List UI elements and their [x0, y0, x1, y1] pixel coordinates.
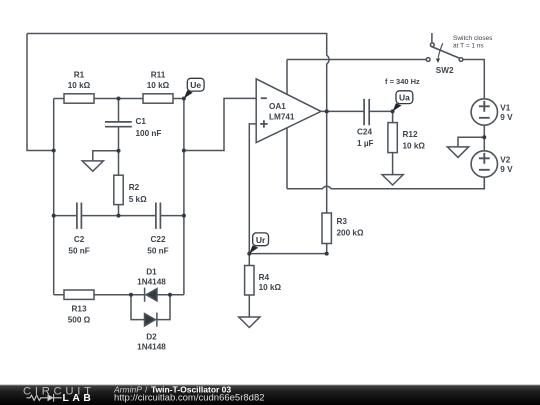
node dot C2 row left — [52, 214, 56, 218]
diode D1 — [146, 289, 157, 301]
wire left inner vertical x=54 — [53, 99, 55, 295]
switch SW2 actuation arrow — [438, 43, 443, 58]
node flag Ue — [184, 78, 204, 98]
resistor R11 — [143, 94, 173, 103]
node dot op-amp output — [325, 109, 329, 113]
switch SW2 terminals — [426, 58, 430, 62]
svg-text:100 nF: 100 nF — [136, 129, 162, 138]
ground under R12 — [382, 175, 403, 185]
diode D2 — [145, 314, 156, 326]
wire op-amp V+ to switch — [287, 59, 426, 61]
svg-text:C22: C22 — [150, 235, 165, 244]
svg-text:R12: R12 — [403, 130, 418, 139]
resistor R12 — [388, 123, 397, 153]
wire C1 branch — [118, 99, 120, 216]
op-amp OA1 triangle — [256, 79, 321, 143]
svg-text:500 Ω: 500 Ω — [68, 316, 91, 325]
op-amp minus mark — [261, 97, 267, 99]
svg-text:R4: R4 — [259, 273, 270, 282]
wire D2 parallel loop — [131, 295, 170, 320]
resistor R13 — [64, 290, 94, 299]
node dot R2 bottom — [117, 214, 121, 218]
capacitor C22 — [156, 203, 161, 229]
svg-text:Ue: Ue — [190, 80, 201, 90]
wire V2 bottom — [483, 178, 485, 189]
svg-text:50 nF: 50 nF — [147, 247, 168, 256]
wire Ua to R12 — [392, 111, 394, 174]
svg-text:D2: D2 — [146, 333, 157, 342]
node dot D1 right — [168, 293, 172, 297]
svg-text:LAB: LAB — [63, 393, 95, 404]
node dot C22 right — [182, 214, 186, 218]
node dot R1-R11-C1 — [117, 97, 121, 101]
node flag Ur — [249, 233, 268, 254]
node dot Ue — [182, 97, 186, 101]
wire output down to R3 — [326, 111, 328, 213]
svg-text:f = 340 Hz: f = 340 Hz — [385, 77, 420, 86]
wire feedback top: output to top-left — [27, 34, 329, 112]
svg-text:C24: C24 — [357, 128, 372, 137]
svg-text:1N4148: 1N4148 — [137, 343, 166, 352]
wire resistor row y=98.5 — [54, 98, 184, 100]
wire to op-amp non-inverting input — [249, 124, 256, 254]
svg-text:9 V: 9 V — [500, 165, 513, 174]
svg-text:5 kΩ: 5 kΩ — [129, 195, 147, 204]
svg-text:10 kΩ: 10 kΩ — [403, 142, 426, 151]
svg-text:R1: R1 — [74, 71, 85, 80]
svg-text:LM741: LM741 — [269, 113, 295, 122]
wire R3 bottom — [326, 244, 328, 254]
switch SW2 open pin stub — [431, 33, 433, 43]
svg-text:R3: R3 — [337, 217, 348, 226]
resistor R4 — [245, 266, 254, 296]
svg-text:Ua: Ua — [399, 93, 410, 103]
svg-text:1N4148: 1N4148 — [137, 278, 166, 287]
svg-text:10 kΩ: 10 kΩ — [259, 283, 282, 292]
node dot R3 bottom — [325, 252, 329, 256]
wire switch to V1 — [463, 60, 484, 99]
svg-text:R11: R11 — [151, 71, 166, 80]
node dot Ua — [391, 109, 395, 113]
voltage source V2 — [471, 151, 497, 177]
svg-text:1 µF: 1 µF — [357, 139, 374, 148]
node dot Ur — [247, 252, 251, 256]
resistor R2 — [114, 175, 123, 204]
svg-text:Switch closes: Switch closes — [453, 35, 493, 42]
svg-text:SW2: SW2 — [436, 66, 454, 75]
ground under C1 — [82, 151, 118, 171]
wire op-amp output — [321, 110, 364, 112]
capacitor C24 — [364, 99, 369, 125]
wire negative rail y=188.8 with hop — [287, 178, 484, 189]
resistor R1 — [64, 94, 94, 103]
footer logo doodle — [27, 394, 62, 402]
op-amp plus mark — [260, 120, 267, 127]
wire V1 to V2 — [483, 126, 485, 150]
wire left vertical down to node row — [27, 34, 54, 151]
ground between V1 and V2 — [447, 137, 484, 157]
node dot V1-V2 middle — [482, 135, 486, 139]
svg-text:D1: D1 — [146, 268, 157, 277]
op-amp U1 power pins — [286, 60, 288, 189]
node flag Ua — [393, 91, 413, 112]
node dot feedback left — [52, 149, 56, 153]
switch SW2 lever — [431, 46, 460, 58]
svg-text:R13: R13 — [71, 305, 86, 314]
capacitor C2 — [77, 203, 82, 229]
svg-text:C2: C2 — [74, 235, 85, 244]
svg-text:9 V: 9 V — [500, 113, 513, 122]
ground under R4 — [239, 317, 260, 328]
wire twin-T cap row y=215.6 — [54, 215, 184, 217]
wire R4 branch — [248, 254, 250, 317]
node dot D1 left — [129, 293, 133, 297]
svg-text:http://circuitlab.com/cudn66e5: http://circuitlab.com/cudn66e5r8d82 — [114, 393, 265, 404]
svg-text:R2: R2 — [129, 183, 140, 192]
wire Ur row — [249, 253, 326, 255]
svg-text:10 kΩ: 10 kΩ — [68, 81, 91, 90]
svg-text:V1: V1 — [500, 104, 510, 113]
wire Ue vertical x=183.9 — [183, 99, 185, 295]
svg-text:Ur: Ur — [256, 235, 266, 245]
svg-text:C1: C1 — [136, 117, 147, 126]
voltage source V1 — [471, 99, 497, 125]
svg-text:V2: V2 — [500, 156, 510, 165]
svg-text:at T = 1 ns: at T = 1 ns — [453, 43, 484, 50]
node dot minus wire — [182, 149, 186, 153]
wire to op-amp inverting input — [184, 98, 256, 150]
wire R13/diode row y=294.7 — [54, 294, 184, 296]
svg-text:50 nF: 50 nF — [68, 247, 89, 256]
svg-text:200 kΩ: 200 kΩ — [337, 229, 364, 238]
capacitor C1 — [105, 122, 132, 127]
svg-text:10 kΩ: 10 kΩ — [147, 81, 170, 90]
resistor R3 — [322, 213, 331, 244]
wire C24 to Ua node — [369, 110, 392, 112]
node dot C1 gnd — [117, 149, 121, 153]
svg-text:OA1: OA1 — [269, 102, 286, 111]
